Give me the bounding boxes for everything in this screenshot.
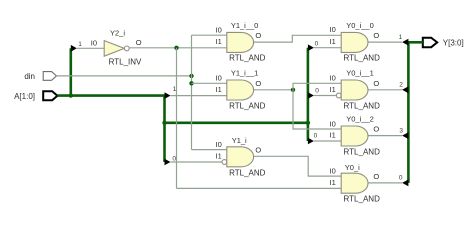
wire Y1_i output to Y0_i I0 [254,156,342,176]
bus wire A[1:0] horizontal from port [57,94,164,97]
svg-text:1: 1 [399,34,403,41]
svg-text:Y[3:0]: Y[3:0] [443,38,464,47]
inverter output bubble [124,46,129,51]
junction inverter output branch [174,46,178,50]
and-gate Y1_i__1 [227,80,254,100]
wire Y1_i__0 output [254,35,342,42]
wire din to Y1_i__1 I0 [192,82,227,84]
svg-text:I1: I1 [330,37,336,46]
svg-text:Y0_i__0: Y0_i__0 [346,21,374,30]
svg-text:RTL_AND: RTL_AND [344,101,381,110]
bus join marker bit1 (Y0_i__0 O) [402,39,408,46]
wire din vertical x191.5 [191,35,193,149]
inverter U Y2_i [104,41,124,57]
svg-text:A[1:0]: A[1:0] [14,92,35,101]
bus join marker bit2 (Y0_i__1 O) [402,86,408,93]
wire inverter output to Y1_i__0 I1 [129,47,227,49]
and-gate Y0_i__0 [341,32,368,52]
svg-text:I1: I1 [330,85,336,94]
svg-text:RTL_AND: RTL_AND [344,54,381,63]
svg-text:I0: I0 [330,119,336,128]
bus wire vertical down x164.5 [163,96,166,162]
svg-text:I1: I1 [330,178,336,187]
wire A0 to Y1_i I1 bubble [171,161,222,163]
svg-text:O: O [255,79,261,88]
bubble Y0_i__1 I1 [336,93,341,98]
wire A1 to Y1_i__1 I1 [171,95,227,97]
and-gate Y0_i [341,173,368,193]
input port A[1:0] [43,91,57,100]
bus rip marker bit0 to Y0_i__1 I1 [308,92,314,99]
svg-text:1: 1 [78,41,82,48]
svg-text:I1: I1 [216,85,222,94]
svg-text:0: 0 [315,41,319,48]
output port Y[3:0] [423,38,437,48]
svg-text:O: O [255,145,261,154]
svg-text:RTL_INV: RTL_INV [109,57,142,66]
bus rip marker bit1 to Y1_i__1 I1 [165,92,171,99]
svg-text:I0: I0 [216,73,222,82]
wire A0 to Y0_i__2 I1 [314,140,341,142]
svg-text:I0: I0 [216,140,222,149]
wire Y0_i output [368,182,402,184]
wire Y0_i__1 output [368,89,402,91]
svg-text:0: 0 [172,155,176,162]
svg-text:RTL_AND: RTL_AND [229,168,266,177]
svg-text:I1: I1 [330,131,336,140]
wire A0 to Y0_i__0 I1 [314,47,341,49]
bus join marker bit3 (Y0_i__2 O) [402,132,408,139]
svg-text:RTL_AND: RTL_AND [344,147,381,156]
svg-text:I0: I0 [91,39,97,48]
svg-text:3: 3 [399,127,403,134]
wire inverter output bottom horizontal to Y0_i I1 [177,187,342,189]
bus rip marker bit0 to Y0_i__2 I1 [308,138,314,145]
output bus vertical [407,42,410,183]
junction A bus at (164.5,122.8) [162,121,166,125]
input port din [43,72,56,81]
wire inverter output vertical branch down [176,48,178,189]
output bus stub to port [407,41,423,44]
svg-text:O: O [373,79,379,88]
svg-text:Y0_i__2: Y0_i__2 [346,114,374,123]
svg-text:Y0_i: Y0_i [345,163,360,172]
svg-text:I0: I0 [330,25,336,34]
junction din at (191.5,75.9) [189,74,193,78]
wire Y1_i__1 output [254,89,293,91]
svg-text:O: O [373,172,379,181]
svg-text:Y1_i__0: Y1_i__0 [231,21,259,30]
wire A0 to Y0_i__1 I1 bubble [314,95,336,97]
wire din to Y1_i__0 I0 [192,34,227,36]
junction Y1_i__1 output fanout [291,88,295,92]
svg-text:I1: I1 [216,151,222,160]
and-gate Y1_i [227,147,254,167]
and-gate Y0_i__1 [341,80,368,100]
bus rip marker bit0 to Y0_i__0 I1 [308,44,314,51]
wire din horizontal [56,75,191,77]
and-gate Y1_i__0 [227,32,254,52]
svg-text:Y1_i__1: Y1_i__1 [231,68,259,77]
wire Y0_i__0 output [368,41,402,43]
bus rip marker bit0 to Y1_i I1 [165,159,171,166]
junction A bus at x70.8 [69,93,73,97]
wire din to Y1_i I0 [192,149,227,151]
svg-text:Y2_i: Y2_i [110,28,125,37]
svg-text:RTL_AND: RTL_AND [229,54,266,63]
wire Y1_i__1 out to Y0_i__2 I0 [293,90,341,129]
svg-text:din: din [24,72,35,81]
bus join marker bit0 (Y0_i O) [402,180,408,187]
svg-text:2: 2 [399,81,403,88]
svg-text:I0: I0 [330,166,336,175]
svg-text:Y0_i__1: Y0_i__1 [346,68,374,77]
svg-text:I0: I0 [330,73,336,82]
svg-text:Y1_i: Y1_i [232,136,247,145]
bus wire horizontal y122.8 [165,122,308,125]
svg-text:0: 0 [314,132,318,139]
junction A bus at (307.9,122.8) [306,121,310,125]
bus wire vertical up to inverter rip [70,48,73,95]
wire Y0_i__2 output [368,135,402,137]
bus wire vertical x307.9 [307,48,310,141]
and-gate Y0_i__2 [341,126,368,146]
svg-text:I0: I0 [216,26,222,35]
wire inverter input [77,47,104,49]
svg-text:O: O [373,31,379,40]
svg-text:0: 0 [315,88,319,95]
svg-text:1: 1 [173,86,177,93]
junction din at (191.5,83.8) [189,81,193,85]
svg-text:O: O [373,125,379,134]
svg-text:O: O [136,38,142,47]
svg-text:RTL_AND: RTL_AND [344,195,381,204]
svg-text:0: 0 [399,174,403,181]
bubble Y1_i I1 [222,160,227,165]
bus rip marker bit1 to inverter [71,45,77,52]
wire Y1_i__1 out to Y0_i__1 I0 [293,83,341,90]
svg-text:I1: I1 [216,37,222,46]
svg-text:O: O [255,31,261,40]
svg-text:RTL_AND: RTL_AND [229,101,266,110]
